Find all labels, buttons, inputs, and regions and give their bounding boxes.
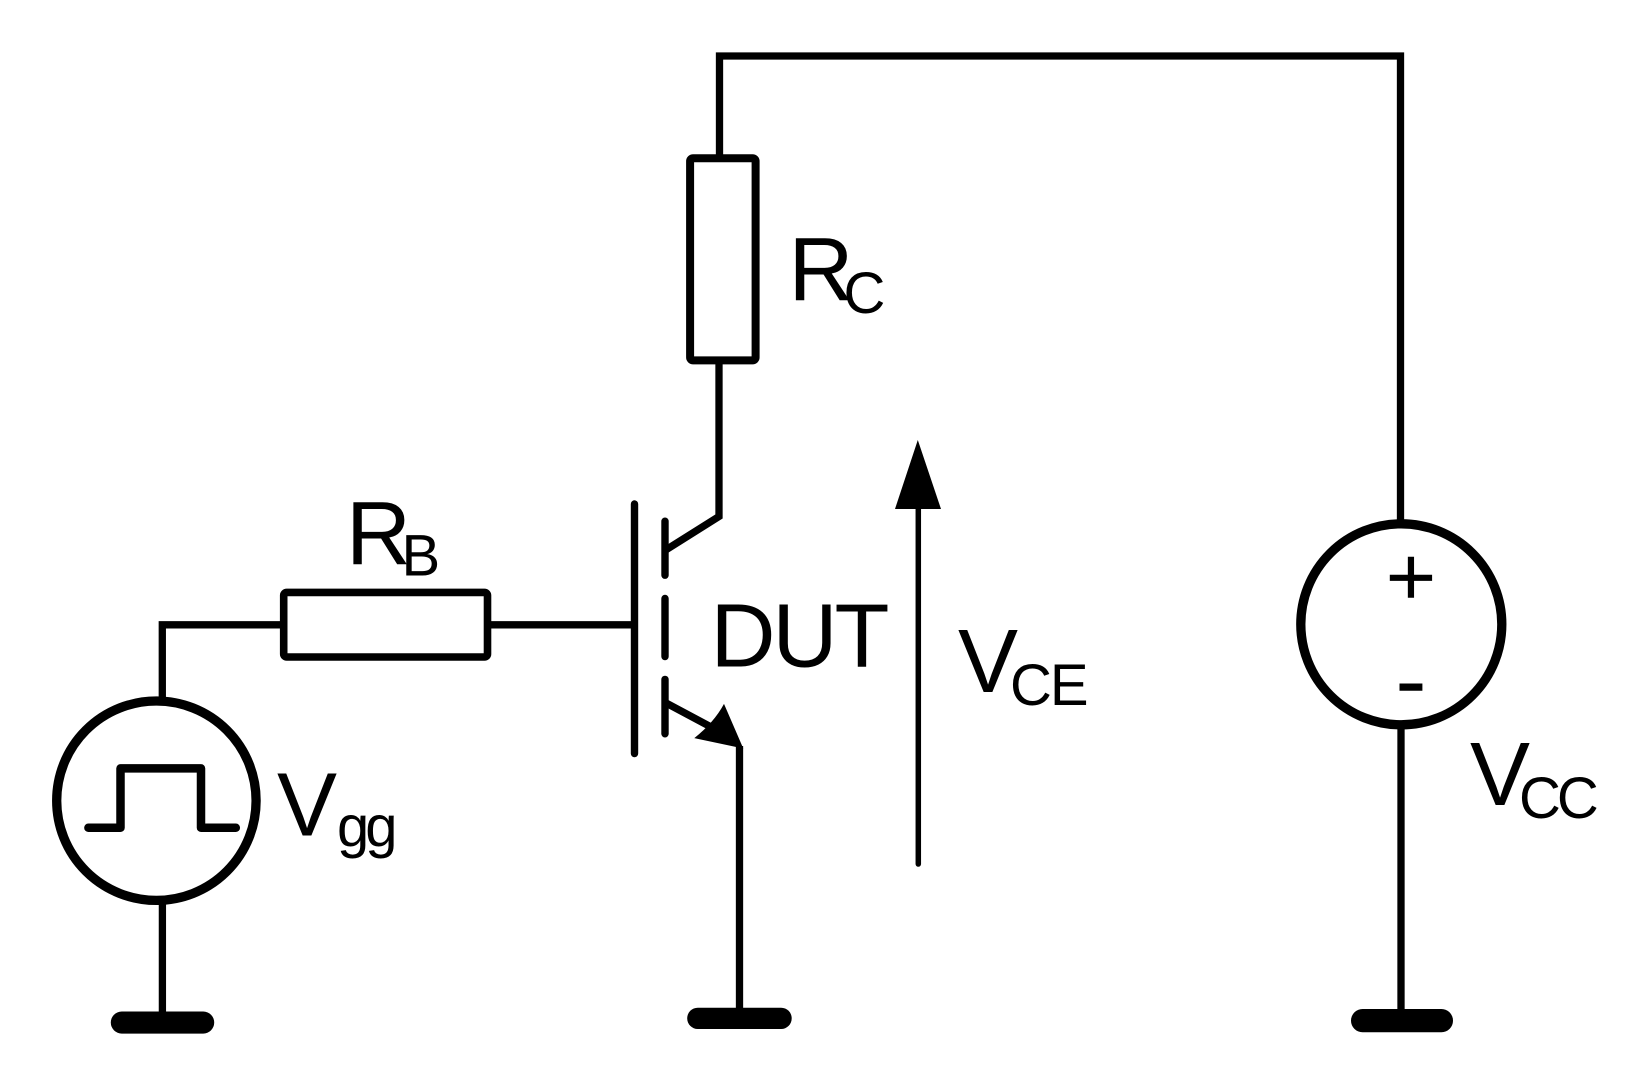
svg-text:V: V [277,755,337,855]
label RB [346,484,440,589]
wire: DUT emitter to ground [736,746,743,1010]
label RC [789,220,886,326]
wire: RB left to Vgg top [162,625,283,700]
channel dash 1 [661,521,668,575]
wire collector: RC bottom to DUT collector [667,361,720,550]
svg-text:C: C [844,261,886,326]
svg-text:B: B [402,524,441,589]
minus sign [1400,683,1423,690]
label VCE [958,612,1087,718]
ground (Vgg) [111,1012,214,1034]
emitter shaft [667,704,726,736]
label VCC [1470,725,1597,831]
ground (emitter) [687,1008,792,1029]
wire: VCC bottom to ground [1397,725,1404,1012]
transistor DUT (IGBT) [635,504,744,754]
arrow VCE [895,440,941,864]
wire gate: RB to gate bar [488,621,632,628]
svg-text:CE: CE [1010,653,1087,718]
ground (VCC) [1351,1009,1453,1032]
plus sign [1390,557,1432,598]
resistor RB [284,592,488,657]
svg-text:DUT: DUT [711,587,888,687]
voltage source VCC [1301,524,1502,725]
svg-text:gg: gg [337,795,394,860]
svg-text:CC: CC [1519,766,1597,831]
resistor RC [690,158,756,360]
emitter arrowhead [694,704,743,749]
channel dash 2 [661,599,668,657]
gate bar [631,504,638,754]
wire: Vgg bottom to ground [159,898,166,1013]
wire top rail: RC top to VCC top [720,56,1401,524]
label Vgg [277,755,394,859]
channel dash 3 [661,679,668,733]
voltage source Vgg (pulse source) [57,701,256,900]
